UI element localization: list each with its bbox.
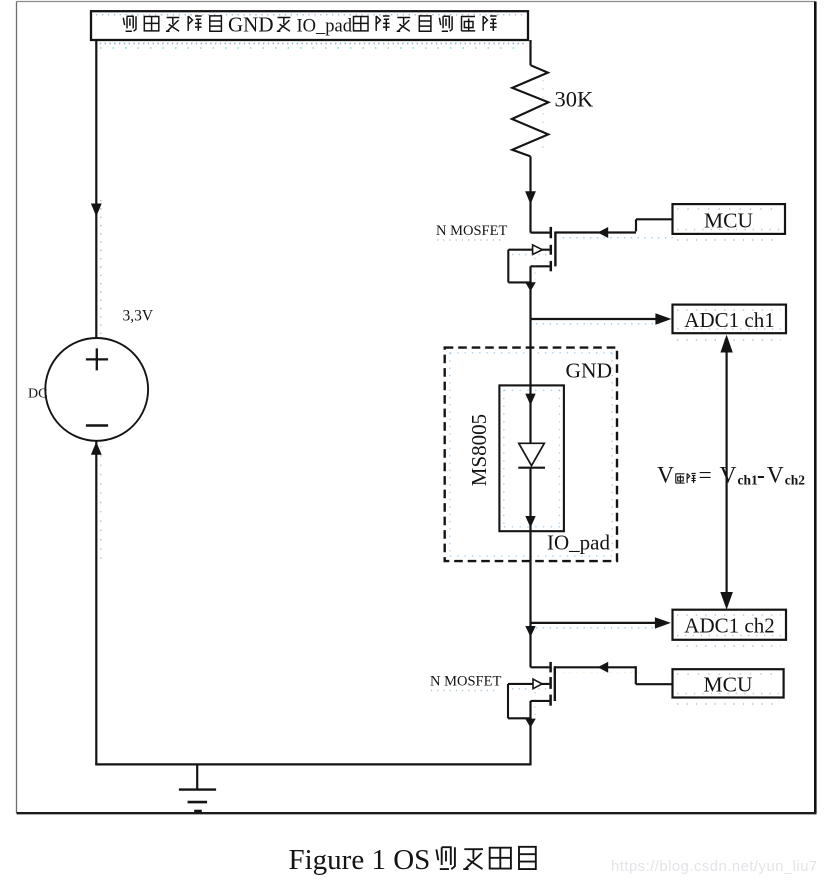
wire: resistor to MOSFET Q1 drain bbox=[529, 156, 531, 232]
arrowhead down below node B bbox=[525, 626, 535, 637]
svg-text:V: V bbox=[657, 462, 674, 488]
wire: bottom rail bbox=[95, 763, 531, 765]
arrowhead into Q1 gate bbox=[598, 227, 609, 238]
minus sign bbox=[86, 424, 108, 427]
svg-text:MCU: MCU bbox=[704, 672, 753, 696]
svg-text:V: V bbox=[767, 462, 784, 488]
DC source V1 circle bbox=[45, 338, 148, 441]
svg-text:DC: DC bbox=[28, 387, 47, 402]
caption Figure 1 OS 测试框图 bbox=[289, 844, 536, 876]
svg-text:MS8005: MS8005 bbox=[467, 414, 491, 486]
svg-text:30K: 30K bbox=[555, 87, 595, 112]
arrowhead down above Q1 bbox=[525, 191, 536, 204]
wire: DC source to bottom rail bbox=[96, 441, 101, 765]
arrowhead into ADC1 ch1 bbox=[655, 313, 671, 324]
svg-text:GND: GND bbox=[228, 13, 274, 37]
wire: MCU U1 to Q1 gate bbox=[555, 219, 673, 238]
arrowhead down below Q1 bbox=[525, 282, 536, 291]
title box bbox=[91, 11, 528, 48]
svg-text:V: V bbox=[720, 462, 737, 488]
wire: Q2 source to bottom rail bbox=[529, 701, 531, 765]
wire: IO_pad down to node B bbox=[529, 561, 531, 667]
arrowhead down on left wire bbox=[91, 204, 102, 217]
wire: node B to ADC1 ch2 bbox=[530, 623, 658, 628]
dashed box chip boundary bbox=[445, 348, 617, 561]
wire: diode to IO_pad pin bbox=[529, 468, 531, 562]
arrowhead into Q2 gate bbox=[598, 662, 609, 673]
resistor R 30K zigzag bbox=[512, 65, 549, 156]
svg-text:=: = bbox=[699, 462, 712, 488]
ground symbol bbox=[179, 764, 216, 811]
wire: Q1 source down to node A bbox=[529, 266, 531, 319]
svg-text:IO_pad: IO_pad bbox=[297, 17, 353, 37]
svg-text:ch1: ch1 bbox=[738, 473, 759, 488]
wire: MCU U3 to Q2 gate bbox=[555, 666, 673, 684]
svg-text:IO_pad: IO_pad bbox=[547, 531, 610, 555]
measurement double arrow Vch1-Vch2 bbox=[720, 335, 733, 610]
svg-text:https://blog.csdn.net/yun_liu7: https://blog.csdn.net/yun_liu7 bbox=[611, 859, 818, 875]
svg-text:N MOSFET: N MOSFET bbox=[436, 223, 507, 239]
svg-text:ADC1 ch1: ADC1 ch1 bbox=[684, 308, 774, 332]
label V压降 = Vch1-Vch2 bbox=[657, 462, 805, 488]
ADC1 ch1 box bbox=[673, 305, 787, 334]
svg-text:MCU: MCU bbox=[704, 208, 753, 232]
svg-text:N MOSFET: N MOSFET bbox=[430, 673, 501, 689]
transistor Q2 N-MOSFET bbox=[508, 662, 555, 718]
arrowhead into ADC1 ch2 bbox=[655, 617, 671, 628]
arrowhead down below Q2 bbox=[525, 719, 536, 728]
arrowhead up below DC source bbox=[91, 442, 102, 455]
node A junction bbox=[529, 319, 531, 347]
svg-text:ch2: ch2 bbox=[785, 473, 806, 488]
arrowhead down at IO_pad pin bbox=[525, 516, 535, 528]
wire: title box to DC source bbox=[96, 40, 101, 338]
arrowhead down at GND pin bbox=[525, 394, 535, 406]
ADC1 ch2 box bbox=[673, 610, 787, 640]
wire: node A to ADC1 ch1 bbox=[531, 319, 661, 324]
svg-text:-: - bbox=[757, 462, 765, 488]
plus sign bbox=[86, 348, 108, 370]
MS8005 body rectangle U2 bbox=[499, 385, 564, 531]
MCU box U1 bbox=[673, 204, 786, 234]
transistor Q1 N-MOSFET bbox=[508, 227, 555, 283]
svg-text:GND: GND bbox=[566, 359, 613, 383]
svg-text:ADC1 ch2: ADC1 ch2 bbox=[684, 613, 774, 637]
MCU box U3 bbox=[673, 669, 784, 697]
svg-text:Figure 1 OS: Figure 1 OS bbox=[289, 844, 431, 876]
wire: title box to resistor bbox=[529, 40, 531, 65]
wire: node A into MS8005 bbox=[529, 348, 531, 444]
title text 测量芯片的GND与IO_pad两端之间的压降 bbox=[123, 13, 496, 37]
diode D1 inside MS8005 bbox=[519, 443, 545, 465]
svg-text:3,3V: 3,3V bbox=[123, 308, 154, 325]
